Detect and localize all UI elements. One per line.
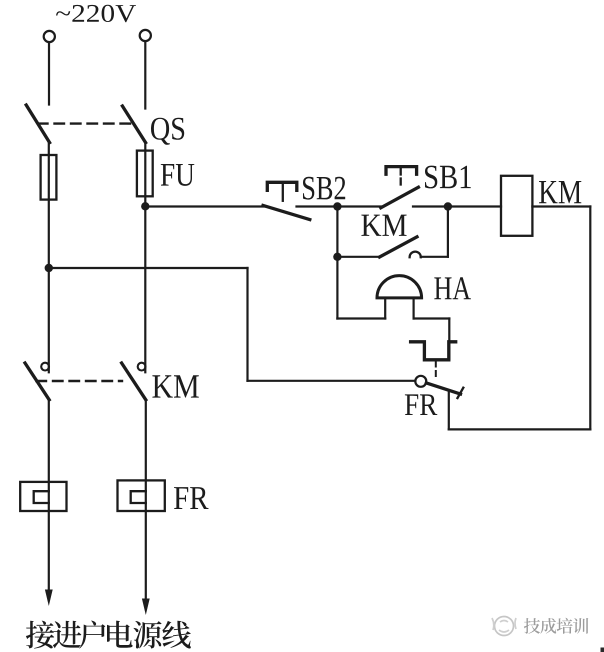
heater FR element (control circuit) [411, 342, 456, 360]
label QS [151, 118, 184, 145]
wire: node D down to bell branch [336, 257, 338, 319]
KM main mechanical link (dashed) [37, 380, 123, 382]
label KM (main contacts) [152, 375, 198, 397]
wire: right rail down [589, 207, 591, 430]
label ~220V supply [56, 5, 136, 22]
node D (aux contact left) [333, 253, 341, 261]
node: control-line tap on right pole [141, 202, 149, 210]
corner mark [601, 648, 604, 652]
watermark text 技成培训 [524, 618, 588, 634]
wire: bell to heater branch [414, 317, 450, 319]
wire: bell branch horizontal left [337, 317, 385, 319]
wire: alarm line vertical drop [246, 268, 248, 381]
terminal L1 (left supply terminal) [44, 31, 55, 42]
wire: node B to SB1 blade [337, 205, 381, 207]
QS mechanical link (dashed) [38, 122, 133, 124]
fuse FU left [41, 155, 57, 200]
switch QS right pole blade [122, 106, 145, 143]
node: alarm-line tap on left pole [45, 264, 53, 272]
pushbutton SB2 actuator head [267, 182, 297, 190]
bell HA right leg [413, 298, 415, 319]
arrowhead right supply lead [142, 599, 150, 616]
label FR (main) [174, 487, 209, 509]
node B (SB2/SB1/aux junction) [333, 202, 341, 210]
coil KM [501, 176, 532, 236]
wire: aux contact right side [421, 256, 448, 258]
wire: right pole KM contact to supply lead [145, 400, 147, 609]
FR right heater notch [131, 491, 146, 503]
bell HA left leg [384, 298, 386, 319]
wire: down to FR heater [448, 319, 450, 360]
node C (SB1 right junction) [444, 202, 452, 210]
wire: up from return to FR contact blade [448, 391, 450, 429]
wire: node C down to aux right [447, 207, 449, 257]
wire: bottom return to FR contact [449, 428, 591, 430]
contact FR NC tick [458, 388, 464, 398]
wire: node D to aux blade [337, 256, 379, 258]
wire: right terminal down to QS [144, 42, 146, 109]
caption 接进户电源线 [26, 621, 191, 649]
pushbutton SB1 actuator head [386, 167, 417, 175]
pushbutton SB2 NC blade [263, 205, 310, 219]
fuse FU right [137, 151, 153, 197]
contact FR NC blade [426, 383, 460, 394]
thermal relay FR heater right [118, 480, 165, 511]
contactor KM main contact left arc [41, 363, 49, 371]
thermal relay FR heater left [20, 482, 66, 511]
label SB2 [303, 177, 345, 200]
contact KM aux NO blade [380, 237, 417, 257]
label SB1 [425, 166, 471, 189]
wire: left pole KM contact to supply lead [48, 400, 50, 600]
label HA [434, 277, 471, 299]
arrowhead left supply lead [45, 590, 53, 607]
watermark logo [492, 617, 516, 636]
contactor KM main contact left blade [25, 363, 49, 400]
contactor KM main contact right arc [138, 363, 146, 371]
wire: left pole QS down through FU to KM contact [48, 143, 50, 373]
wire: control line from tap to SB2 [145, 205, 266, 207]
FR mechanical link (dashed) [435, 362, 437, 378]
wire: node B down to aux contact [336, 207, 338, 257]
switch QS left pole blade [26, 105, 49, 143]
label FR (control) [405, 394, 437, 415]
label KM (aux contact) [361, 215, 406, 236]
pushbutton SB1 NO blade [381, 187, 419, 208]
label FU [161, 164, 195, 186]
terminal L2 (right supply terminal) [140, 30, 151, 41]
contactor KM main contact right blade [122, 363, 146, 400]
pushbutton SB2 stem [282, 183, 284, 201]
wire: KM coil to right rail [532, 205, 590, 207]
wire: left terminal down to QS [48, 42, 50, 104]
contact FR NC pivot circle [415, 376, 426, 387]
wire: alarm line to FR contact [248, 380, 416, 382]
wire: right pole QS down through FU to KM contact [144, 143, 146, 373]
FR left heater notch [34, 491, 49, 503]
wire: alarm line horizontal from left pole [49, 267, 248, 269]
wire: node C to KM coil [448, 205, 501, 207]
wire: SB2 to node B [297, 205, 338, 207]
pushbutton SB1 stem [400, 167, 402, 175]
bell HA dome [377, 276, 422, 298]
label KM (coil) [539, 181, 581, 203]
wire: SB1 to node C [413, 205, 448, 207]
contact KM aux arc [410, 252, 421, 258]
